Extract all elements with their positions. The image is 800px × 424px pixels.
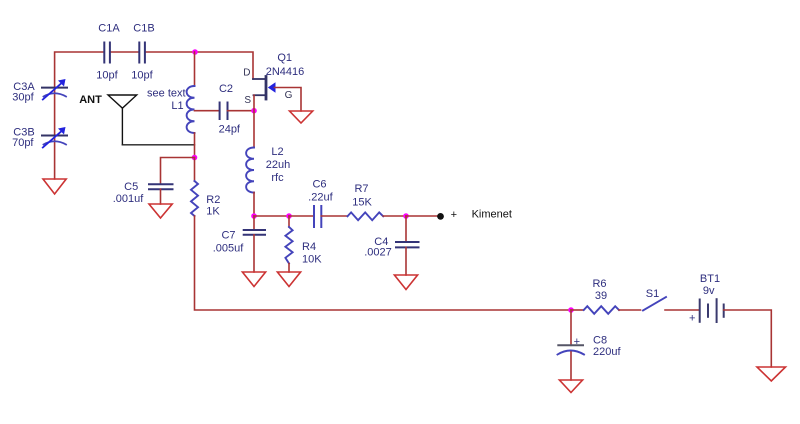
svg-text:R4: R4 <box>302 241 316 253</box>
wire C4 down <box>405 216 407 242</box>
svg-text:22uh: 22uh <box>266 159 290 171</box>
switch S1 <box>643 297 666 311</box>
wire switch to battery <box>665 309 699 311</box>
wire to output terminal <box>406 215 438 217</box>
svg-text:C1B: C1B <box>133 23 154 35</box>
svg-text:39: 39 <box>595 290 607 302</box>
wire C8 down <box>570 310 572 345</box>
svg-text:24pf: 24pf <box>219 124 241 136</box>
wire C2 to source junction <box>228 110 255 112</box>
wire C7 to ground <box>253 235 255 272</box>
wire L1 tap to C2 <box>195 110 220 112</box>
capacitor C2 <box>220 103 228 120</box>
svg-text:C7: C7 <box>221 230 235 242</box>
wire rail junction to R4 junction <box>254 215 289 217</box>
wire junction to R2 <box>194 158 196 182</box>
svg-text:15K: 15K <box>352 197 372 209</box>
svg-text:Kimenet: Kimenet <box>472 209 512 221</box>
wire R4 top <box>288 216 290 227</box>
svg-text:C1A: C1A <box>98 23 120 35</box>
wire gate to ground <box>275 88 302 112</box>
node junction (source) <box>251 108 257 114</box>
node junction (L1 bottom) <box>192 155 198 161</box>
svg-text:+: + <box>574 336 580 348</box>
wire top rail left segment <box>55 52 104 179</box>
svg-text:C5: C5 <box>124 181 138 193</box>
node junction (C4 top) <box>403 213 409 219</box>
svg-text:C2: C2 <box>219 83 233 95</box>
ground (battery) <box>757 367 786 381</box>
node junction top (L1 top) <box>192 49 198 55</box>
wire R4 to ground <box>288 264 290 273</box>
battery BT1 <box>700 299 724 322</box>
wire R2 down and bottom rail <box>195 216 572 310</box>
wire R7 to C4 junction <box>383 215 406 217</box>
svg-text:.22uf: .22uf <box>308 191 333 203</box>
svg-text:L2: L2 <box>271 146 283 158</box>
wire C5 to ground <box>160 189 162 204</box>
capacitor C6 <box>314 206 321 227</box>
svg-text:G: G <box>285 90 293 101</box>
ground (below C7) <box>242 272 265 287</box>
svg-text:R2: R2 <box>206 194 220 206</box>
capacitor C3B (variable) <box>42 127 67 148</box>
wire C7 down <box>253 216 255 230</box>
node junction (C8 top) <box>568 307 574 313</box>
svg-text:R6: R6 <box>592 278 606 290</box>
svg-text:+: + <box>689 313 695 325</box>
capacitor C5 <box>149 184 173 189</box>
capacitor C7 <box>244 230 265 235</box>
svg-text:220uf: 220uf <box>593 346 621 358</box>
ground (below C4) <box>394 275 417 290</box>
wire C1B to drain corner <box>145 52 253 79</box>
svg-text:R7: R7 <box>354 183 368 195</box>
wire C8 to ground <box>570 352 572 380</box>
svg-text:Q1: Q1 <box>277 52 292 64</box>
transistor Q1 <box>253 77 276 100</box>
inductor L1 <box>187 86 195 133</box>
svg-text:10pf: 10pf <box>96 70 118 82</box>
svg-text:10K: 10K <box>302 254 322 266</box>
node output terminal <box>437 213 444 220</box>
capacitor C3A (variable) <box>42 79 67 100</box>
svg-text:10pf: 10pf <box>131 70 153 82</box>
wire rail to C6 <box>289 215 314 217</box>
capacitor C4 <box>396 242 419 247</box>
capacitor C8 (electrolytic) <box>558 345 585 354</box>
svg-text:ANT: ANT <box>79 94 102 106</box>
svg-text:1K: 1K <box>206 206 220 218</box>
svg-text:30pf: 30pf <box>12 92 34 104</box>
node junction (R4 top) <box>286 213 292 219</box>
svg-text:S: S <box>244 95 251 106</box>
wire between C1A and C1B <box>110 51 139 53</box>
wire R6 to switch <box>619 309 641 311</box>
ground (below C5) <box>149 204 172 218</box>
wire L1 top <box>194 52 196 86</box>
node junction (L2 bottom / C7) <box>251 213 257 219</box>
resistor R2 <box>191 181 198 216</box>
wire source down to L2 <box>253 95 255 147</box>
capacitor C1A <box>104 43 110 63</box>
svg-text:9v: 9v <box>703 285 715 297</box>
svg-text:.005uf: .005uf <box>213 243 245 255</box>
wire C5 branch <box>161 158 195 185</box>
svg-text:C6: C6 <box>312 179 326 191</box>
wire antenna tap <box>122 144 194 146</box>
resistor R4 <box>285 227 292 264</box>
wire battery to ground <box>724 310 772 367</box>
svg-text:D: D <box>243 67 250 78</box>
wire junction to R6 <box>571 309 584 311</box>
svg-text:2N4416: 2N4416 <box>266 66 305 78</box>
svg-text:+: + <box>451 209 457 221</box>
svg-text:rfc: rfc <box>271 172 284 184</box>
resistor R6 <box>584 306 619 314</box>
antenna symbol <box>108 95 137 145</box>
svg-text:C8: C8 <box>593 335 607 347</box>
svg-text:.001uf: .001uf <box>113 193 145 205</box>
svg-text:S1: S1 <box>646 288 659 300</box>
ground (gate) <box>290 111 313 123</box>
wire C4 to ground <box>405 247 407 275</box>
wire L2 bottom to rail <box>253 193 255 217</box>
inductor L2 <box>246 148 254 193</box>
ground (below C3B) <box>43 179 66 194</box>
wire L1 bottom to junction <box>194 133 196 158</box>
svg-text:L1: L1 <box>171 100 183 112</box>
svg-text:.0027: .0027 <box>364 247 392 259</box>
ground (below C8) <box>559 380 582 393</box>
wire C6 to R7 <box>321 215 347 217</box>
resistor R7 <box>348 212 384 220</box>
capacitor C1B <box>139 43 145 63</box>
svg-text:see text: see text <box>147 88 186 100</box>
svg-text:BT1: BT1 <box>700 273 720 285</box>
svg-text:70pf: 70pf <box>12 137 34 149</box>
ground (below R4) <box>277 272 300 287</box>
